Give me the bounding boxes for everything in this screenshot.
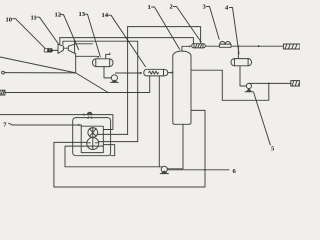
wire: stage2 discharge duct top xyxy=(75,43,93,45)
junction dot xyxy=(127,92,129,94)
arrow before valve xyxy=(83,113,86,115)
junction dot xyxy=(74,40,76,42)
control valve xyxy=(87,112,92,118)
label 5 xyxy=(271,146,275,153)
arrow into heater xyxy=(140,72,143,74)
leader 3 xyxy=(207,7,220,40)
junction dot xyxy=(137,72,139,74)
label 3 xyxy=(203,4,207,11)
junction dot xyxy=(127,72,129,74)
feed inlet hatched tail xyxy=(0,90,5,95)
wire: stage2 discharge to drum xyxy=(76,55,97,57)
svg-text:4: 4 xyxy=(225,5,229,12)
pump P3 (5) xyxy=(246,83,251,88)
compressor stage 2 (12) trapezoid xyxy=(68,44,74,53)
feed line from left edge xyxy=(5,92,150,94)
wire from port to junction xyxy=(4,72,75,74)
product arrow A1 hatched xyxy=(283,44,300,49)
drum V1 (13) xyxy=(93,59,114,67)
junction dot xyxy=(137,92,139,94)
wire fan outlet to riser xyxy=(99,141,138,143)
compressor stage 1 (11) trapezoid xyxy=(58,44,63,53)
label 14 xyxy=(102,12,109,19)
shaft between stages xyxy=(63,47,68,49)
svg-text:1: 1 xyxy=(148,4,151,11)
heater leg to bottoms pump xyxy=(158,76,160,167)
loop B rounded xyxy=(65,146,161,167)
valve line y=114.6 xyxy=(0,115,113,130)
drum drain to pump xyxy=(104,67,111,78)
svg-text:7: 7 xyxy=(3,122,7,129)
wire fan to riser x127.6 xyxy=(97,133,127,135)
label 10 xyxy=(6,17,13,24)
label 13 xyxy=(79,11,86,18)
heater leg / feed riser xyxy=(149,76,151,93)
pump P1 discharge to heater xyxy=(116,72,142,74)
label 1 xyxy=(148,4,151,11)
junction dot xyxy=(204,169,206,171)
leader 2 xyxy=(174,7,201,41)
junction dot xyxy=(127,37,129,39)
air cooler inner box xyxy=(81,126,103,152)
heater coil zigzag xyxy=(149,71,159,74)
column overhead stub xyxy=(182,46,190,51)
svg-text:11: 11 xyxy=(31,15,37,22)
reboiler side line xyxy=(54,110,205,187)
filter (2) xyxy=(192,44,206,48)
junction dot xyxy=(107,92,109,94)
junction dot xyxy=(72,142,74,144)
leader 5 xyxy=(254,92,271,145)
left port circle xyxy=(2,71,5,74)
column bottoms line xyxy=(167,124,183,169)
column C1 (1) xyxy=(173,51,191,124)
diagonal to feed line xyxy=(76,73,108,93)
pipe T2 line y=42 xyxy=(63,41,138,44)
leader 13 xyxy=(85,14,101,57)
condenser with humps (3) xyxy=(219,42,231,48)
leader 11 xyxy=(37,17,59,44)
leader 7 dash xyxy=(9,123,12,125)
heater outlet to column xyxy=(168,72,172,74)
drum2 drain xyxy=(240,66,246,86)
arrow on product line xyxy=(258,45,260,47)
turbine drain vertical xyxy=(75,53,77,73)
leader 14 xyxy=(108,15,145,66)
pipe T1 top line y=38 xyxy=(60,38,194,45)
leader 12 xyxy=(61,15,79,50)
svg-text:3: 3 xyxy=(203,4,207,11)
pump P2 bottoms (6) xyxy=(161,166,167,172)
motor M (10) xyxy=(44,48,53,52)
svg-text:2: 2 xyxy=(170,4,174,11)
svg-text:5: 5 xyxy=(271,146,275,153)
pump P2 discharge to 6 xyxy=(167,169,229,171)
label 2 xyxy=(170,4,174,11)
diagonal line from left edge y57 xyxy=(0,57,76,73)
line 7 xyxy=(12,125,81,126)
label 4 xyxy=(225,5,229,12)
leader 10 xyxy=(13,19,46,49)
arrow into filter xyxy=(199,41,201,43)
pump P3 discharge xyxy=(249,82,291,84)
leader 4 xyxy=(230,8,240,54)
overhead top line y=26.6 xyxy=(128,27,201,42)
air cooler outer box xyxy=(73,118,111,156)
reflux drum V2 (4) xyxy=(231,59,252,66)
label 7 xyxy=(3,122,7,129)
shaft motor-compressor xyxy=(53,49,58,51)
heater/vaporizer (14) xyxy=(144,69,164,76)
leader 1 xyxy=(152,7,180,49)
arrow into drum top xyxy=(97,56,99,59)
wire filter to condenser xyxy=(205,45,219,47)
label 11 xyxy=(31,15,37,22)
bottoms arrow A2 hatched xyxy=(291,81,300,86)
label 6 xyxy=(233,168,237,175)
fan circle top xyxy=(88,128,98,138)
label 12 xyxy=(55,12,62,19)
wire condenser to drum2 / product xyxy=(231,45,283,47)
stub T2 to stage2 xyxy=(74,41,76,44)
small loop inner box to cooler bottom xyxy=(103,145,114,156)
pump P1 xyxy=(111,75,117,81)
vertical pipe x=127.6 xyxy=(127,27,129,135)
drum gooseneck vent xyxy=(106,53,110,59)
reflux return loop xyxy=(191,70,269,100)
vertical pipe x=137.7 xyxy=(137,41,139,141)
svg-text:6: 6 xyxy=(233,168,237,175)
blower circle bottom xyxy=(87,138,99,150)
svg-text:10: 10 xyxy=(6,17,13,24)
